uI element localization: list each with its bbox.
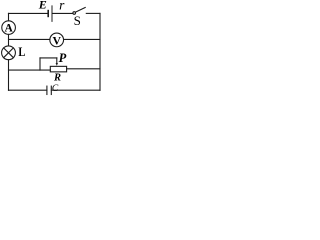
- svg-text:V: V: [53, 33, 62, 47]
- svg-text:L: L: [18, 45, 25, 59]
- wire resistor right end to right wire: [67, 68, 100, 70]
- wire top-left segment: [9, 12, 48, 14]
- wire battery to switch: [53, 12, 73, 14]
- wire switch to top-right corner: [86, 12, 100, 14]
- lamp L diagonal 2: [4, 48, 14, 58]
- wire lamp to bottom-left corner: [8, 60, 10, 91]
- wire wiper vertical riser: [39, 58, 41, 70]
- wiper arrowhead P: [56, 63, 58, 66]
- battery E (short plate): [47, 11, 49, 17]
- wire bottom right of capacitor: [51, 89, 100, 91]
- svg-text:r: r: [59, 0, 65, 12]
- battery E (long plate): [51, 6, 53, 22]
- wire ammeter to lamp: [8, 34, 10, 46]
- svg-text:C: C: [52, 84, 59, 94]
- capacitor C left plate: [46, 86, 48, 94]
- resistor R box: [50, 66, 66, 72]
- svg-text:P: P: [59, 51, 67, 65]
- wire left vertical top: [8, 13, 10, 20]
- wire left junction to resistor left end: [9, 69, 51, 71]
- svg-text:R: R: [53, 72, 61, 83]
- lamp L circle: [2, 46, 16, 60]
- svg-text:E: E: [38, 0, 47, 11]
- wire right vertical: [99, 13, 101, 90]
- lamp L diagonal 1: [4, 48, 14, 58]
- wire wiper horizontal to arrow: [40, 57, 57, 59]
- wire voltmeter branch left: [9, 38, 50, 40]
- switch S pivot circle: [73, 12, 76, 15]
- switch S blade: [76, 8, 86, 13]
- ammeter A circle: [2, 21, 16, 35]
- wire voltmeter branch right: [64, 38, 100, 40]
- wire bottom left of capacitor: [9, 89, 47, 91]
- voltmeter V circle: [50, 33, 64, 47]
- svg-text:S: S: [74, 13, 81, 28]
- capacitor C right plate: [50, 86, 52, 94]
- wiper arrow shaft P: [56, 58, 58, 63]
- svg-text:A: A: [4, 23, 13, 35]
